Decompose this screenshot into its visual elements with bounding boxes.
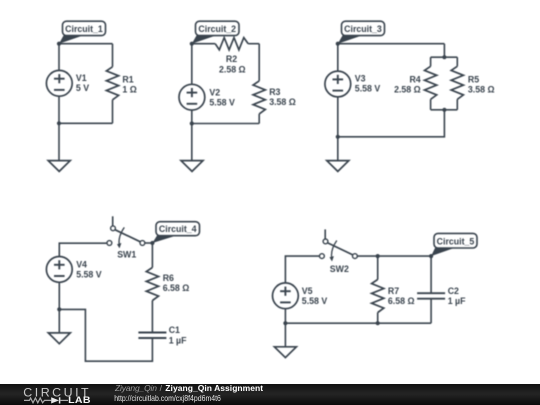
svg-text:V4: V4: [76, 259, 87, 269]
flag Circuit_1: [59, 21, 106, 44]
svg-text:Circuit_2: Circuit_2: [198, 24, 236, 34]
node C4 bottom junction: [57, 307, 61, 311]
voltage source V1: [46, 70, 72, 96]
wire C2 top right: [248, 43, 259, 45]
svg-text:5.58 V: 5.58 V: [302, 296, 328, 306]
wire R4 bottom stub: [430, 99, 432, 110]
resistor R4: [425, 66, 437, 99]
wire C5 C2 lower: [430, 299, 432, 324]
svg-text:3.58 Ω: 3.58 Ω: [468, 84, 495, 94]
voltage source V5: [273, 283, 299, 309]
svg-text:Circuit_1: Circuit_1: [65, 24, 103, 34]
node C5 R7 top junction: [376, 254, 380, 258]
wire C4 left lower: [58, 282, 60, 309]
ground C4: [48, 333, 70, 344]
wire R5 top stub: [456, 57, 458, 66]
svg-text:Circuit_4: Circuit_4: [159, 224, 197, 234]
resistor R1: [106, 67, 118, 100]
wire C2 top left: [192, 43, 215, 45]
svg-text:http://circuitlab.com/cxj8f4pd: http://circuitlab.com/cxj8f4pd6m4t6: [114, 393, 221, 403]
wire C2 left upper: [191, 44, 193, 85]
logo waveform: resistor zigzag: [24, 398, 51, 403]
svg-text:5.58 V: 5.58 V: [209, 97, 235, 107]
wire C3 down to parallel top: [443, 44, 445, 58]
wire C2 to ground: [191, 124, 193, 161]
wire C5 left lower: [284, 309, 286, 324]
wire C4 top left: [59, 243, 107, 256]
svg-text:R4: R4: [409, 74, 420, 84]
logo diode: [51, 397, 59, 403]
node C3 parallel bottom junction: [442, 108, 446, 112]
wire C3 parallel bottom bar: [431, 109, 458, 111]
svg-text:Circuit_5: Circuit_5: [437, 236, 475, 246]
svg-text:5.58 V: 5.58 V: [76, 270, 102, 280]
footer bar: [0, 384, 540, 405]
svg-text:C2: C2: [448, 286, 459, 296]
voltage source V2: [179, 84, 205, 110]
wire C1 left upper: [58, 44, 60, 71]
flag Circuit_4: [152, 222, 199, 243]
voltage source V4: [46, 257, 72, 283]
wire C3 bottom return: [338, 110, 445, 137]
resistor R3: [253, 81, 265, 114]
wire SW2 to C2 node: [357, 255, 431, 257]
node C3 parallel top junction: [442, 55, 446, 59]
svg-text:6.58 Ω: 6.58 Ω: [388, 296, 415, 306]
svg-text:5.58 V: 5.58 V: [355, 83, 381, 93]
ground C5: [274, 347, 296, 358]
wire C3 left upper: [337, 44, 339, 71]
svg-text:R6: R6: [163, 273, 174, 283]
wire C4 bottom return: [59, 309, 152, 361]
node C4 (Circuit_4): [150, 241, 154, 245]
wire C1 bottom: [59, 122, 113, 124]
svg-text:2.58 Ω: 2.58 Ω: [394, 84, 421, 94]
capacitor C1: [138, 333, 166, 339]
wire C4 to ground: [58, 309, 60, 333]
svg-text:1 µF: 1 µF: [448, 296, 466, 306]
node C2 top (Circuit_2): [190, 42, 194, 46]
wire SW1 to node: [145, 242, 153, 244]
node C3 top (Circuit_3): [336, 42, 340, 46]
switch SW1: [107, 216, 145, 248]
wire R4 top stub: [430, 57, 432, 66]
voltage source V3: [325, 71, 351, 97]
svg-text:V1: V1: [76, 73, 87, 83]
wire C2 right upper: [258, 44, 260, 81]
wire C3 to ground: [337, 137, 339, 161]
svg-text:Ziyang_Qin: Ziyang_Qin: [114, 384, 157, 393]
resistor R7: [372, 280, 384, 313]
svg-text:1 Ω: 1 Ω: [122, 84, 136, 94]
wire C5 top left: [285, 256, 319, 283]
wire C3 top: [338, 43, 445, 45]
svg-text:/: /: [160, 384, 163, 393]
svg-text:R5: R5: [468, 74, 479, 84]
wire C2 right lower: [258, 114, 260, 124]
svg-text:Ziyang_Qin Assignment: Ziyang_Qin Assignment: [165, 384, 263, 393]
ground C3: [327, 161, 349, 172]
wire C5 bottom: [285, 322, 431, 324]
resistor R2: [215, 38, 248, 50]
switch SW2: [320, 229, 358, 261]
svg-text:SW1: SW1: [117, 250, 136, 260]
node C2 bottom junction: [190, 121, 194, 125]
capacitor C2: [417, 293, 445, 299]
ground C1: [48, 161, 70, 172]
wire R6 to C1cap: [151, 301, 153, 333]
svg-text:R7: R7: [388, 286, 399, 296]
node C5 (Circuit_5): [429, 254, 433, 258]
node C1 top (Circuit_1): [57, 42, 61, 46]
node C1 bottom junction: [57, 121, 61, 125]
flag Circuit_5: [431, 233, 477, 256]
svg-text:3.58 Ω: 3.58 Ω: [269, 97, 296, 107]
wire C1 top: [59, 43, 113, 45]
wire C5 C2 upper: [430, 256, 432, 293]
wire C2 left lower: [191, 110, 193, 123]
wire C5 R7 upper: [377, 256, 379, 279]
svg-text:R2: R2: [226, 54, 237, 64]
svg-text:V3: V3: [355, 73, 366, 83]
svg-text:R3: R3: [269, 87, 280, 97]
svg-text:Circuit_3: Circuit_3: [344, 24, 382, 34]
wire C5 to ground: [284, 323, 286, 347]
wire R5 bottom stub: [456, 99, 458, 110]
svg-text:2.58 Ω: 2.58 Ω: [219, 64, 246, 74]
svg-text:LAB: LAB: [68, 395, 91, 405]
svg-text:6.58 Ω: 6.58 Ω: [163, 283, 190, 293]
svg-text:V2: V2: [209, 87, 220, 97]
node C5 bottom left junction: [283, 321, 287, 325]
wire C5 R7 lower: [377, 313, 379, 324]
wire C1 right lower: [112, 100, 114, 124]
wire C4 node to R6: [151, 243, 153, 268]
node C3 bottom junction: [336, 135, 340, 139]
svg-text:R1: R1: [122, 74, 133, 84]
wire C1 right upper: [112, 44, 114, 67]
resistor R5: [451, 66, 463, 99]
svg-text:C1: C1: [169, 325, 180, 335]
node C5 R7 bottom junction: [376, 321, 380, 325]
wire C1 left lower: [58, 96, 60, 123]
svg-text:1 µF: 1 µF: [169, 335, 187, 345]
wire C2 bottom: [192, 123, 259, 125]
flag Circuit_2: [192, 21, 239, 44]
svg-text:5 V: 5 V: [76, 83, 89, 93]
svg-text:V5: V5: [302, 286, 313, 296]
resistor R6: [146, 268, 158, 301]
wire C1 to ground: [58, 123, 60, 160]
flag Circuit_3: [338, 21, 385, 44]
wire C3 parallel top bar: [431, 56, 458, 58]
wire C3 left lower: [337, 97, 339, 137]
ground C2: [181, 161, 203, 172]
svg-text:SW2: SW2: [330, 264, 349, 274]
